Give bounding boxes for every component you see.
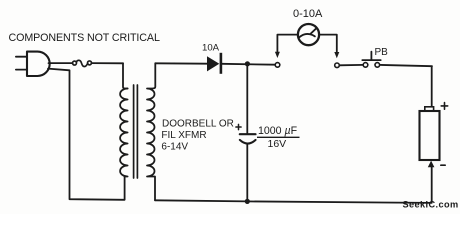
svg-text:10A: 10A [202, 42, 220, 53]
svg-text:FIL XFMR: FIL XFMR [161, 130, 206, 141]
svg-text:1000 µF: 1000 µF [258, 125, 298, 137]
svg-text:16V: 16V [268, 138, 287, 150]
svg-text:0-10A: 0-10A [293, 8, 323, 20]
svg-text:SeekIC.com: SeekIC.com [403, 200, 459, 210]
svg-text:DOORBELL OR: DOORBELL OR [162, 119, 234, 130]
svg-text:PB: PB [375, 47, 389, 58]
svg-text:6-14V: 6-14V [161, 141, 188, 152]
svg-text:COMPONENTS NOT CRITICAL: COMPONENTS NOT CRITICAL [9, 32, 160, 44]
